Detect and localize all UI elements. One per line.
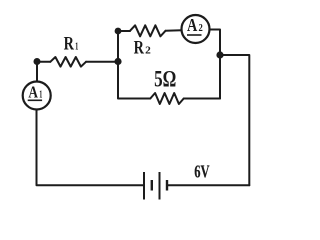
wire: A1 node to R1 left lead bbox=[37, 61, 50, 63]
wire: A1 bottom to battery left bbox=[37, 110, 144, 186]
label R1 bbox=[64, 34, 79, 55]
svg-text:5Ω: 5Ω bbox=[154, 66, 176, 92]
resistor R1 bbox=[50, 57, 86, 67]
wire: R2 left lead bbox=[118, 30, 130, 32]
wire: R1 right lead to junction bbox=[86, 61, 118, 63]
svg-text:1: 1 bbox=[39, 90, 42, 101]
ammeter A1 bbox=[23, 82, 51, 110]
svg-text:R: R bbox=[134, 38, 145, 59]
svg-text:A: A bbox=[28, 83, 38, 102]
svg-text:2: 2 bbox=[145, 45, 151, 57]
svg-text:6V: 6V bbox=[194, 162, 210, 182]
svg-text:1: 1 bbox=[75, 42, 78, 53]
battery: left long plate bbox=[143, 172, 145, 200]
wire: A1 node down to ammeter A1 bbox=[36, 62, 38, 82]
node: A1/R1 junction dot bbox=[34, 58, 41, 65]
wire: junction down to 5ohm branch bbox=[118, 62, 150, 99]
wire: right junction to right rail down bbox=[220, 55, 249, 185]
battery: second short plate bbox=[166, 180, 168, 191]
node: right junction dot bbox=[216, 51, 223, 58]
svg-text:2: 2 bbox=[199, 23, 203, 34]
label R2 bbox=[134, 38, 152, 59]
battery: second long plate bbox=[159, 172, 161, 200]
svg-text:A: A bbox=[187, 15, 198, 35]
wire: junction up to R2 branch bbox=[117, 31, 119, 62]
resistor 5ohm bbox=[150, 93, 183, 104]
ammeter A2 bbox=[182, 15, 210, 43]
resistor R2 bbox=[130, 25, 166, 36]
wire: 5ohm right lead bbox=[184, 98, 220, 100]
wire: A2 to right junction column bbox=[210, 30, 221, 99]
wire: battery right to right rail bbox=[168, 184, 250, 186]
svg-text:R: R bbox=[64, 34, 75, 55]
node: R2 branch top dot bbox=[115, 28, 122, 35]
wire: R2 to ammeter A2 bbox=[166, 29, 182, 32]
battery: first short plate bbox=[151, 180, 153, 191]
node: R1/R2/5ohm left junction dot bbox=[114, 58, 121, 65]
